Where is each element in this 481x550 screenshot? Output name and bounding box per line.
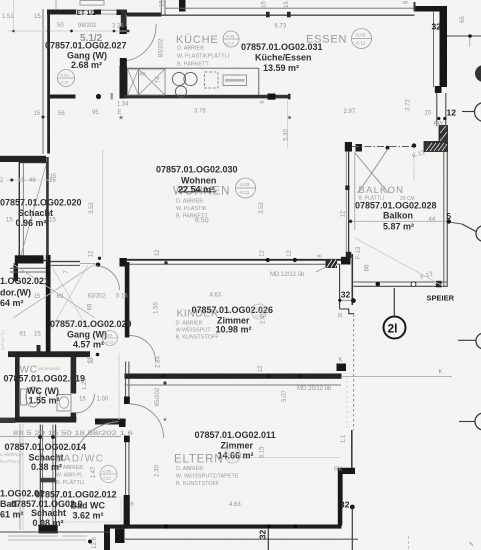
schacht 020 bottom thick xyxy=(15,255,44,263)
stamp essen xyxy=(352,29,372,49)
schacht 020 diagonal xyxy=(21,165,47,257)
balcony faint diagonal xyxy=(355,238,443,286)
wall hatched block balcony top-right xyxy=(424,126,448,152)
wall hatched post x326 xyxy=(326,259,338,268)
door tick gray xyxy=(111,93,113,100)
eltern right faint dashed inner xyxy=(346,376,348,428)
wall lines corridor top xyxy=(10,267,46,269)
counter end tick xyxy=(288,94,291,100)
door ET sill lines xyxy=(76,9,117,11)
wall divider kinder-eltern xyxy=(125,374,342,379)
wall stub gang bottom xyxy=(50,95,76,99)
fridge box with X xyxy=(128,69,139,95)
stamp eltern xyxy=(225,447,241,463)
dim dots y180 xyxy=(6,179,57,181)
shaft column lines xyxy=(39,425,41,528)
wc room right wall lower xyxy=(71,413,77,423)
speier line lower solid xyxy=(351,430,353,468)
kitchen counter outline xyxy=(127,67,259,69)
tick black left rail bottom xyxy=(346,252,352,258)
stamp kinder xyxy=(252,304,267,319)
kitchen half-wall bottom xyxy=(124,95,290,99)
balcony right rail double xyxy=(443,152,445,288)
stamp bad xyxy=(100,466,117,483)
balloon right y73 dark xyxy=(475,65,481,82)
speier left line upper xyxy=(351,254,353,305)
balcony bottom corner dark xyxy=(436,281,442,288)
wall wc top bar xyxy=(8,351,90,357)
wall jog left at y156 xyxy=(0,156,46,162)
wall left mid double xyxy=(125,362,127,398)
cabinet box with X xyxy=(139,69,166,95)
french door arcs balcony xyxy=(358,149,389,194)
balloon right y112 xyxy=(462,111,475,113)
door post eltern upper xyxy=(124,397,130,405)
wall to left edge y420 xyxy=(0,418,15,423)
bottom wall dots xyxy=(164,524,168,528)
wall kinder right inner xyxy=(339,264,341,309)
bottom wall left drop xyxy=(104,525,110,550)
window tick x267 xyxy=(266,12,270,17)
wall post x120 y262 xyxy=(120,258,127,267)
wall top corner piece xyxy=(94,10,101,15)
chimney K box xyxy=(337,364,347,372)
dim row dots y31 xyxy=(8,30,131,32)
wc room right wall upper xyxy=(71,357,77,394)
wall stairwell left xyxy=(46,157,49,255)
stairwell diagonals xyxy=(13,264,95,318)
wall top post black x179 xyxy=(179,0,186,12)
wall right eltern black lower xyxy=(338,468,355,509)
stamp kuche xyxy=(223,31,239,47)
wall right step xyxy=(435,86,442,93)
balcony rail dot filled xyxy=(376,282,381,287)
wall right niche lines xyxy=(436,93,438,126)
door post eltern lower xyxy=(124,436,130,443)
dim texts wc area xyxy=(82,378,88,390)
wall top Gang bar xyxy=(47,10,76,15)
wall top-right corner black xyxy=(414,6,447,12)
balcony door-side tick black xyxy=(345,142,352,152)
wall stub left below schacht xyxy=(14,264,19,282)
balloon right y421 xyxy=(459,421,475,423)
scan noise xyxy=(0,0,1,1)
stamp wohnen xyxy=(236,178,256,198)
dim line y539 xyxy=(125,538,358,540)
dim dot 32 bottom right xyxy=(350,505,355,510)
junction dot x97 xyxy=(95,419,100,424)
door post bad black xyxy=(119,419,126,427)
bathtub bad xyxy=(59,497,121,522)
wall top kuche bar xyxy=(127,13,162,17)
balcony rail circle open xyxy=(411,282,416,287)
pillar black kitchen-essen xyxy=(268,94,276,100)
balcony bottom rail double xyxy=(354,281,448,283)
dim dots wohnen y258 xyxy=(98,257,101,260)
balcony top centerline dash-dot xyxy=(352,146,412,148)
cooktop dashed box xyxy=(205,72,219,88)
stamp gang027 xyxy=(58,70,75,87)
schacht 020 box xyxy=(19,163,47,261)
door arc bad xyxy=(77,422,119,451)
stamp gang029 xyxy=(103,331,118,346)
dim dots y117 xyxy=(42,116,45,119)
niche box above top wall xyxy=(80,1,104,6)
door arc gang-wohnen xyxy=(96,266,120,290)
faint dashed bottom right xyxy=(408,536,410,550)
neighbor bad left lines xyxy=(19,424,21,530)
wall kitchen left black xyxy=(120,66,128,99)
wall stub above wc xyxy=(37,345,41,352)
wc bottom wall xyxy=(15,417,76,423)
door arc kinder xyxy=(130,336,156,362)
wall right outer black xyxy=(440,6,448,87)
wall stairwell left thick black xyxy=(46,255,51,352)
dim dots y436 xyxy=(0,436,121,438)
wall kitchen-door lower post xyxy=(120,58,127,66)
bottom wall black square xyxy=(115,529,125,543)
door arc kitchen xyxy=(124,24,156,61)
bottom dim line xyxy=(0,531,110,533)
wall top essen double lines xyxy=(165,7,414,9)
wall kinder top dots xyxy=(266,258,270,262)
balloon right y233 xyxy=(449,222,462,224)
RW pipe dots xyxy=(437,117,440,120)
wall bad top right part xyxy=(95,419,126,425)
wall left outer line xyxy=(42,9,44,154)
wall kinder top double xyxy=(127,259,343,261)
wall left inner thick xyxy=(47,10,50,154)
dishwasher box xyxy=(223,75,247,86)
wall jog up x161 xyxy=(160,0,162,16)
sink wc xyxy=(57,395,71,412)
divider dim extension right xyxy=(341,376,452,378)
window tick x288 xyxy=(287,12,291,17)
wall right inner step xyxy=(340,309,354,314)
junction dot x414 xyxy=(386,146,390,150)
unit balloon 2l xyxy=(384,317,406,339)
toilet wc xyxy=(26,387,40,407)
outlet dot kitchen xyxy=(119,116,122,119)
door post dot gang xyxy=(96,263,101,268)
shaft bottom black xyxy=(39,525,58,534)
sink circles xyxy=(172,72,185,85)
bottom wall main xyxy=(109,525,342,529)
wall end blob x343 xyxy=(343,258,349,262)
door arc eltern xyxy=(130,404,164,438)
wc door arc xyxy=(76,394,95,413)
wall kitchen-door upper post xyxy=(121,10,127,27)
faint vert dim wohnen xyxy=(102,150,104,257)
wc room left wall xyxy=(15,357,20,422)
wall left bottom black xyxy=(124,495,130,529)
balloon right y341 xyxy=(458,339,476,341)
speier dashed line mid xyxy=(353,314,355,430)
door post dot gang south xyxy=(96,94,101,99)
faint line eltern xyxy=(240,457,340,459)
bottom micro text marks xyxy=(8,536,58,537)
dim line down right xyxy=(351,507,353,550)
door sill gang xyxy=(80,263,96,265)
wall kinder-eltern left black upper xyxy=(125,262,130,338)
wall right corner bottom xyxy=(338,509,343,526)
wall y262 gang top double xyxy=(51,261,81,263)
wall left lower double xyxy=(125,442,127,496)
faint vert dim corridor xyxy=(118,353,120,420)
dim line balcony width xyxy=(351,220,450,222)
dim line down x268 xyxy=(267,529,269,550)
wall wohnen-balkon left rail xyxy=(345,152,347,258)
shaft divider bar xyxy=(40,478,56,483)
dim line top right xyxy=(447,35,481,37)
wohnen bottom-right corner black xyxy=(341,257,351,265)
leader to unit balloon xyxy=(393,288,395,317)
